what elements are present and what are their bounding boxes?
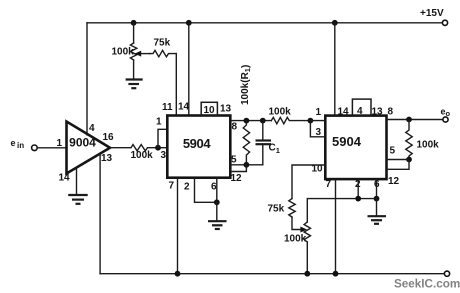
- resistor R1 100k: [243, 121, 249, 165]
- node: R6 top: [406, 117, 412, 123]
- svg-text:16: 16: [103, 132, 115, 143]
- node: U3 pin1/pin3 tie: [308, 118, 314, 124]
- wire: loop to U3 pin 3: [310, 121, 325, 137]
- svg-text:75k: 75k: [268, 204, 285, 215]
- node: pin 2 tie: [355, 196, 361, 202]
- svg-text:7: 7: [169, 181, 175, 192]
- wire: U3 pin 8 to output: [387, 119, 443, 121]
- svg-text:10: 10: [204, 105, 216, 116]
- resistor R4 100k (U1 output): [110, 145, 167, 151]
- svg-text:100k: 100k: [112, 47, 135, 58]
- svg-text:100k: 100k: [131, 150, 154, 161]
- potentiometer R8 100k: [304, 199, 376, 274]
- svg-text:SeekIC.com: SeekIC.com: [394, 278, 460, 291]
- svg-text:C1: C1: [269, 143, 280, 156]
- svg-text:100k: 100k: [284, 234, 307, 245]
- resistor R3 75k: [149, 50, 176, 56]
- wire: U3 pin 12 loop: [387, 160, 410, 170]
- svg-text:8: 8: [232, 122, 238, 133]
- node: rail junction at U2 pin 14: [186, 20, 192, 26]
- node: R6 bottom / pin 5: [406, 157, 412, 163]
- svg-text:100k: 100k: [269, 107, 292, 118]
- op-amp U1 9004: [67, 122, 111, 174]
- node: rail at U2 pin 7: [175, 271, 181, 277]
- wiper arm to pot R8: [292, 217, 302, 229]
- wire: U3 pin 5 stub: [387, 159, 410, 161]
- wire: U2 pin 12 loop to pin 5: [230, 165, 246, 172]
- svg-text:100k: 100k: [417, 140, 440, 151]
- svg-text:13: 13: [101, 153, 113, 164]
- svg-text:+15V: +15V: [420, 8, 444, 19]
- node: rail at pot R8: [304, 271, 310, 277]
- svg-text:2: 2: [184, 182, 190, 193]
- resistor R6 100k (feedback U3): [406, 120, 412, 160]
- wire: bottom rail: [100, 273, 444, 275]
- node: pin5/12/R1 tie: [244, 162, 250, 168]
- ground under U1: [68, 168, 88, 204]
- resistor R7 75k: [289, 199, 295, 218]
- svg-text:14: 14: [178, 102, 190, 113]
- wire: U2 pin 7 to bottom rail: [177, 178, 179, 274]
- svg-text:100k(R1): 100k(R1): [240, 65, 252, 105]
- IC U3 5904: [325, 116, 386, 180]
- potentiometer R2 100k (offset adjust): [130, 23, 150, 79]
- node: rail at U3 pin 7: [333, 271, 339, 277]
- wire: U3 pin 6 stub: [376, 179, 378, 199]
- IC U2 5904: [167, 116, 230, 178]
- terminal: +15V open circle: [442, 20, 447, 25]
- svg-text:12: 12: [231, 173, 243, 184]
- wire: into U3 pin 1: [310, 120, 325, 122]
- resistor R5 100k (interstage): [271, 117, 310, 123]
- svg-text:5: 5: [390, 146, 396, 157]
- svg-text:13: 13: [372, 107, 384, 118]
- svg-text:5: 5: [231, 155, 237, 166]
- svg-text:eo: eo: [441, 107, 451, 118]
- wire: U2 pin 2 to ground node: [195, 178, 217, 203]
- node: U2 pins 2-6 tie: [214, 199, 220, 205]
- svg-text:14: 14: [59, 173, 71, 184]
- svg-text:ein: ein: [11, 138, 25, 150]
- node: U2 pin1/pin3 tie: [155, 145, 161, 151]
- svg-text:5904: 5904: [183, 136, 211, 151]
- node: C1 top: [260, 118, 266, 124]
- capacitor C1: [256, 121, 272, 165]
- wire: U2 pin 8 line: [230, 120, 271, 122]
- svg-text:5904: 5904: [332, 134, 362, 149]
- wire: rail to U2 pin 14: [188, 23, 190, 116]
- svg-text:75k: 75k: [154, 38, 171, 49]
- svg-text:4: 4: [357, 106, 363, 117]
- jumper loop pins 4-13 (U3): [352, 99, 371, 116]
- wire: U3 pin 10 to 75k: [292, 165, 325, 199]
- node: rail junction at U3 pin 14: [332, 20, 338, 26]
- node: pin 6 tie: [374, 196, 380, 202]
- wire: loop to U2 pin 1: [158, 129, 167, 147]
- svg-text:7: 7: [326, 179, 332, 190]
- svg-text:14: 14: [338, 107, 350, 118]
- wire: rail down to op-amp pin 4: [86, 23, 88, 135]
- terminal: bottom right open circle: [444, 271, 449, 276]
- wire: 75k to U2 pin 11: [175, 54, 177, 116]
- wire: U1 pin 13 feedback down: [99, 154, 101, 274]
- svg-text:11: 11: [162, 102, 173, 113]
- wire: input to op-amp: [37, 147, 66, 149]
- terminal: eo open circle: [443, 117, 448, 122]
- svg-text:12: 12: [388, 176, 400, 187]
- node: rail junction at pot R2: [131, 20, 137, 26]
- ground under U2: [208, 202, 227, 229]
- svg-text:1: 1: [156, 117, 162, 128]
- svg-text:1: 1: [57, 138, 63, 149]
- wire: U3 pin 7 to bottom rail: [335, 179, 337, 274]
- ground under R2: [126, 80, 143, 89]
- svg-text:13: 13: [220, 104, 232, 115]
- wire: U3 pin 2 stub: [357, 179, 359, 199]
- svg-text:3: 3: [161, 150, 167, 161]
- jumper loop pins 10-13 (U2): [201, 102, 217, 115]
- svg-text:4: 4: [89, 123, 95, 134]
- wire: rail to U3 pin 14: [334, 23, 336, 116]
- svg-text:9004: 9004: [69, 136, 96, 150]
- svg-text:3: 3: [316, 127, 322, 138]
- node: R1 top: [244, 118, 250, 124]
- svg-text:1: 1: [316, 107, 322, 118]
- wire: U2 pin 6 stub: [216, 178, 218, 203]
- wire: +15V top rail: [87, 22, 442, 24]
- ground under U3: [368, 199, 387, 224]
- wire: U2 pin 5 line: [230, 164, 262, 166]
- svg-text:8: 8: [388, 107, 394, 118]
- terminal: input open circle: [32, 145, 38, 151]
